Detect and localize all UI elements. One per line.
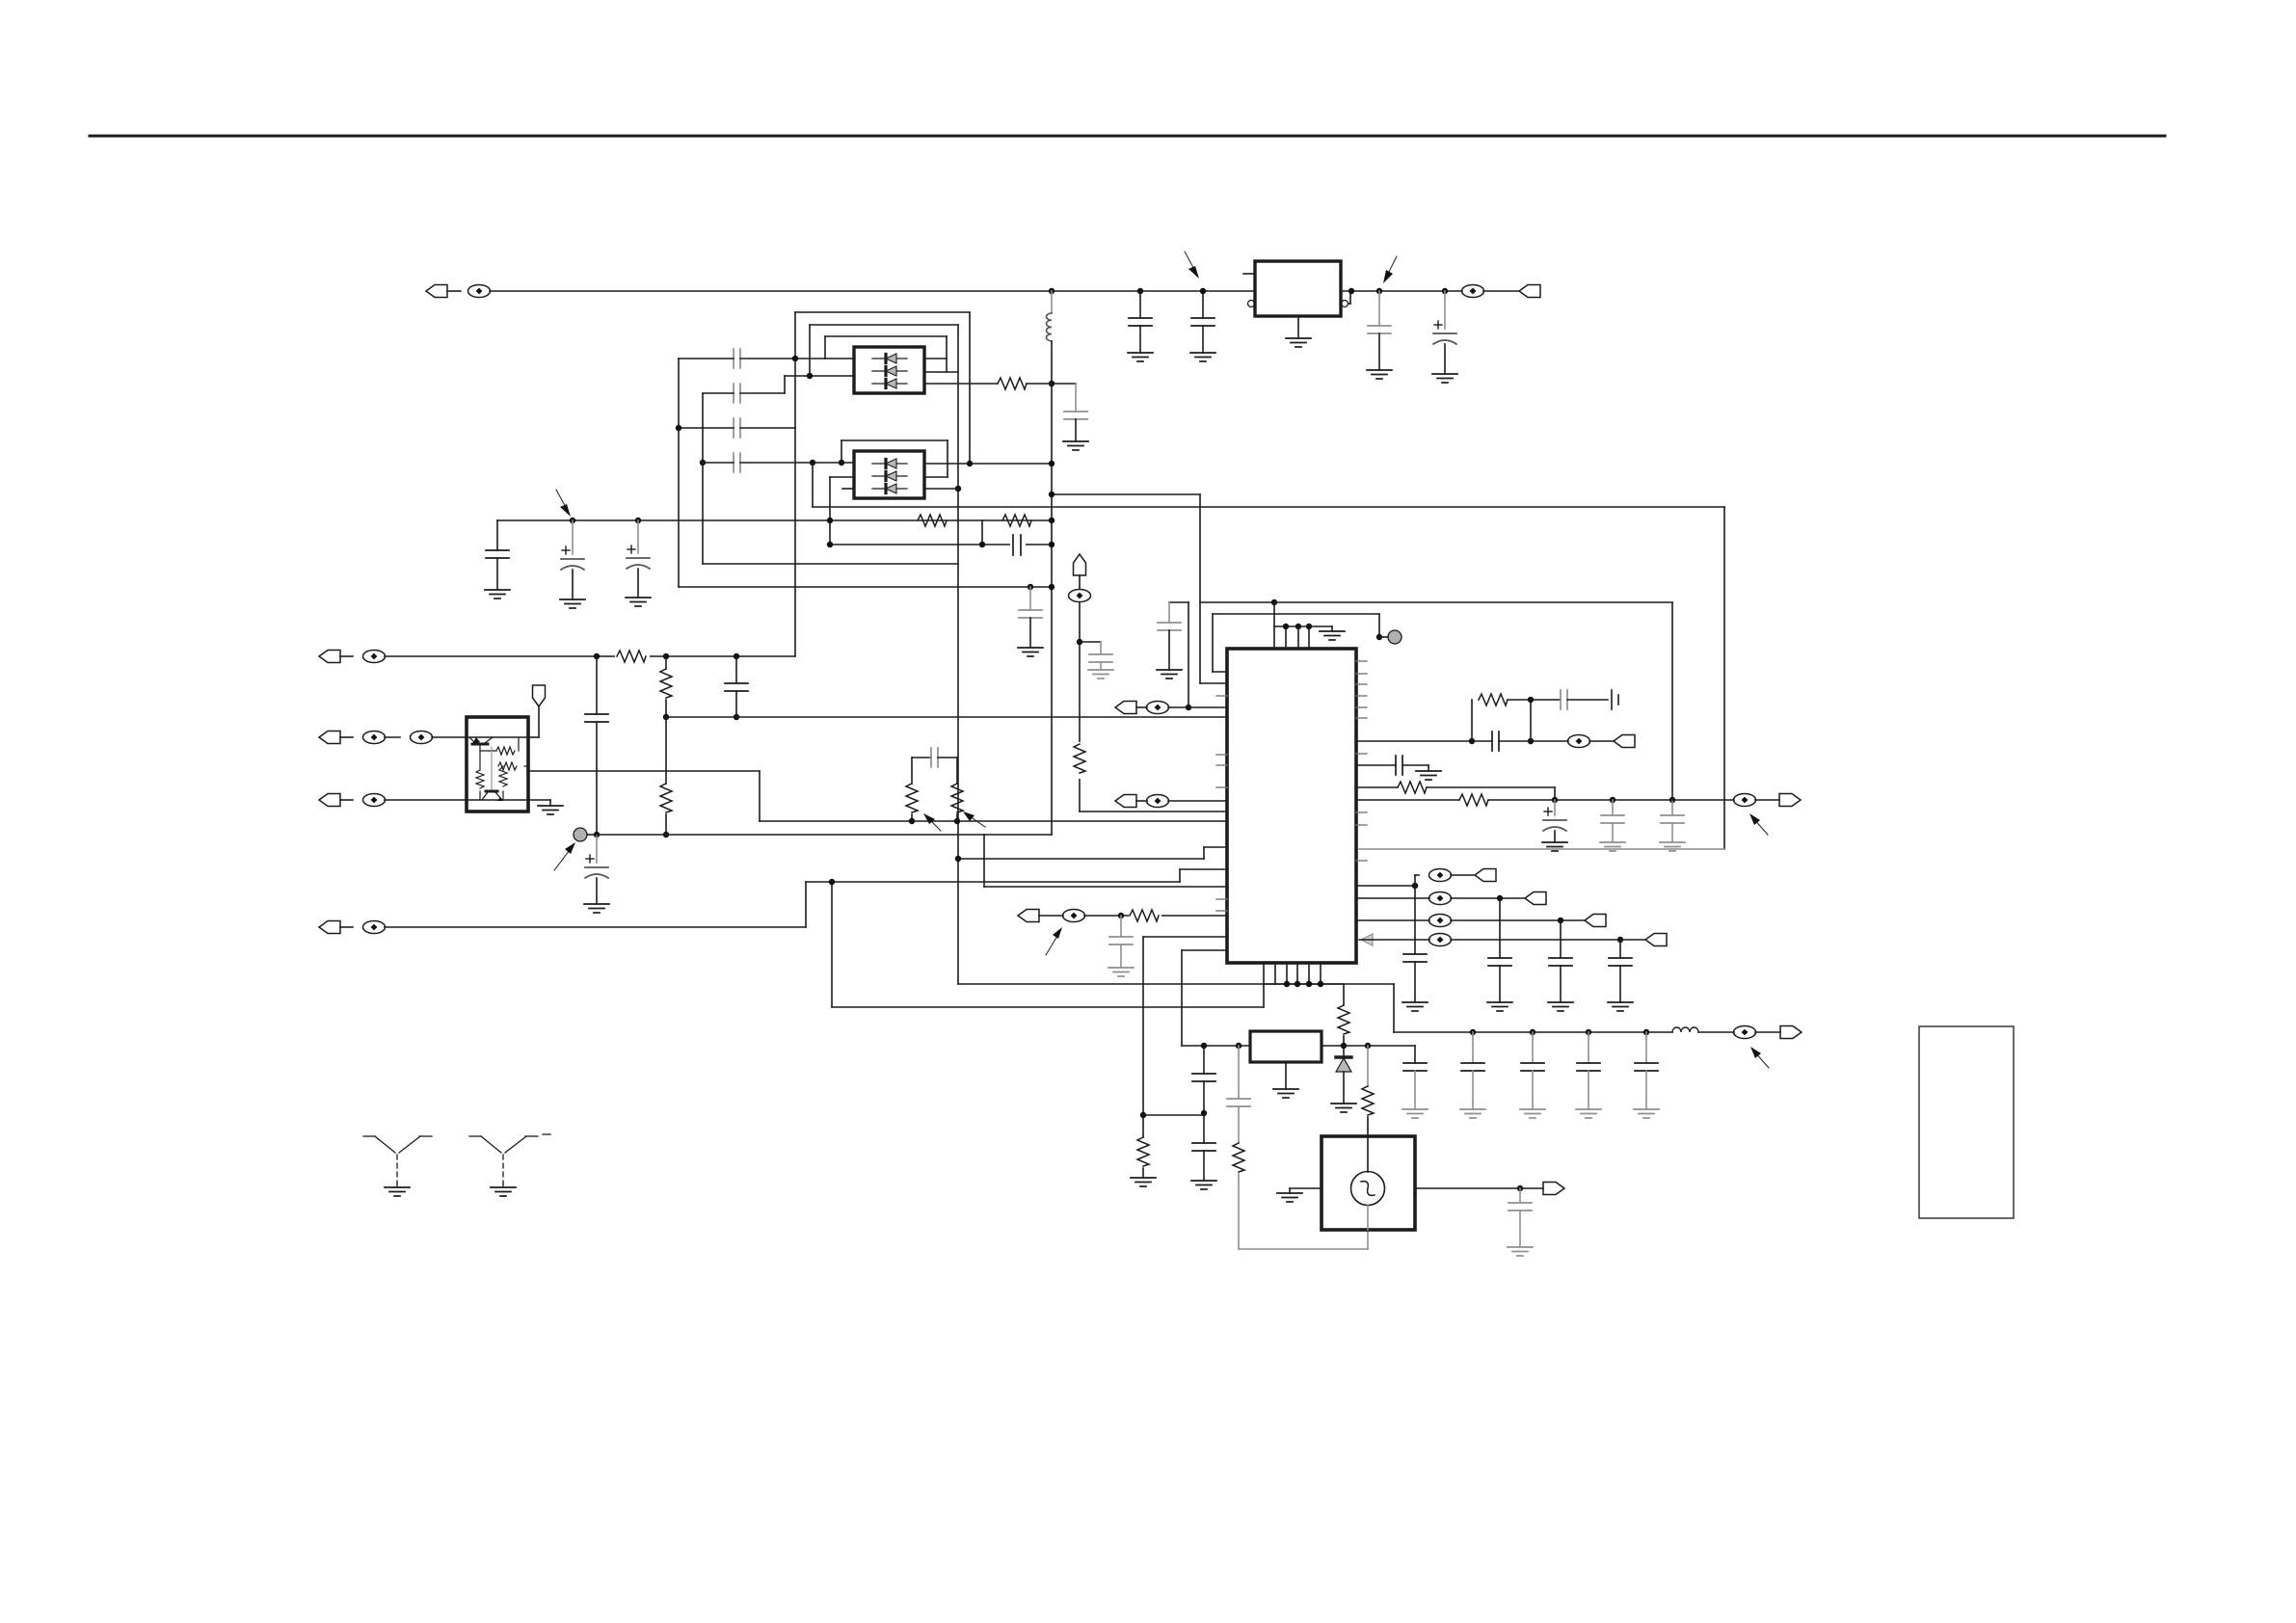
capacitor C26 xyxy=(1508,1188,1533,1256)
wire from Q1 row y793-852 xyxy=(527,771,1227,821)
ferrite bead FB1 xyxy=(468,285,491,298)
connector J9 row 831 xyxy=(1115,795,1227,808)
riser x825 to loop xyxy=(794,428,796,656)
resistor R8 xyxy=(951,758,963,824)
antenna symbol 2 xyxy=(469,1134,550,1196)
node R/L junction xyxy=(1049,381,1055,386)
coupling capacitor C3 xyxy=(676,418,795,438)
probe arrow to output bead xyxy=(1749,813,1768,835)
tap wire xyxy=(981,520,983,545)
right resistor R11 row 817 xyxy=(1356,782,1555,800)
capacitor C12 xyxy=(1367,291,1392,379)
long wire y1021 xyxy=(958,859,1394,984)
wire row 968 xyxy=(1143,937,1227,1115)
node at L1 top xyxy=(1049,288,1055,294)
connector J6 row D xyxy=(319,921,806,934)
cap+res chain x1285 xyxy=(1227,1046,1368,1249)
loop wire L2 of D1 xyxy=(807,325,958,379)
connector J10 row 950 xyxy=(1018,910,1227,922)
connector J2 (output) xyxy=(1519,285,1540,298)
capacitor C28 xyxy=(1520,1032,1545,1118)
capacitor C25 xyxy=(1402,1046,1428,1118)
resistor R10 xyxy=(1129,907,1161,924)
capacitor C29 xyxy=(1576,1032,1601,1118)
U1 right pin stubs xyxy=(1356,661,1367,861)
wire xyxy=(1483,290,1519,292)
resistor R4 xyxy=(615,648,650,665)
transistor block Q1 box xyxy=(467,717,528,811)
U1 bottom-left pin drop xyxy=(1182,950,1227,1046)
ground of IC2 xyxy=(1286,316,1311,347)
capacitor C11 xyxy=(1190,288,1215,361)
SEC2 xyxy=(319,428,1394,1196)
right net row 769 xyxy=(1356,690,1635,751)
capacitor C23 xyxy=(1660,800,1685,851)
regulator IC2 xyxy=(1243,261,1350,316)
IC U1 main box xyxy=(1227,649,1356,963)
capacitor C30 xyxy=(1634,1032,1659,1118)
loop drop x1735 xyxy=(1671,602,1673,800)
probe arrow to C11 xyxy=(1185,252,1199,279)
loop wire of D2 xyxy=(841,440,948,477)
electrolytic C17 xyxy=(584,835,609,913)
X1 left ground xyxy=(1277,1188,1322,1202)
U1 left pin stubs xyxy=(1216,696,1227,911)
capacitor C8 inline xyxy=(1010,535,1026,555)
connector J8 row 734 xyxy=(1115,702,1227,714)
right oval row 4 (y975) xyxy=(1359,934,1667,1012)
gray node with probe xyxy=(574,828,600,841)
inductor L2 xyxy=(1672,1027,1734,1032)
wire row y866-880 to IC xyxy=(597,835,1227,887)
supply top wire y625 xyxy=(1049,492,1672,683)
capacitor C10 xyxy=(1128,288,1153,361)
IC3 ground xyxy=(1273,1062,1298,1098)
long wire y1045 xyxy=(829,879,1264,1007)
resistor R3 xyxy=(1002,515,1031,526)
X1 output xyxy=(1415,1183,1564,1195)
wire +B main xyxy=(490,290,1255,292)
loop wire L1 of D1 xyxy=(792,312,973,466)
probe arrow to rail xyxy=(556,490,571,517)
right cap C20 row 794 xyxy=(1356,756,1441,780)
D2 left pin3 stub xyxy=(842,488,854,490)
wire row y744 to IC xyxy=(666,716,1227,718)
probe arrow xyxy=(1750,1047,1769,1068)
capacitor C5 xyxy=(485,520,510,599)
node with probe arrow xyxy=(1376,288,1382,294)
row D riser to IC xyxy=(806,869,1227,927)
U1 top pins xyxy=(1271,599,1332,649)
capacitor C9 xyxy=(1018,587,1043,656)
electrolytic C13 xyxy=(1432,288,1457,383)
rail wire y540 xyxy=(497,518,1055,523)
bead FB3 + connector xyxy=(1734,1026,1802,1039)
supply loop wire W xyxy=(813,464,1724,849)
probe arrow to J10 xyxy=(1046,927,1062,955)
capacitor C19 xyxy=(1108,916,1134,976)
wire reg output xyxy=(1341,290,1462,292)
crystal oscillator X1 xyxy=(1322,1136,1415,1230)
electrolytic C6 xyxy=(560,520,585,608)
connector J7 (down arrow above Q1) xyxy=(528,685,546,737)
ground of top pins xyxy=(1320,626,1345,640)
rail wire y565 xyxy=(827,542,1055,547)
resistor R6 (x691 lower) xyxy=(660,717,672,838)
SEC3 xyxy=(1018,492,1801,1115)
right oval row 2 (y932) xyxy=(1356,892,1546,1012)
cap C15 inline x619 xyxy=(585,656,608,835)
resistor R2 xyxy=(918,515,947,526)
inner loop wire y637 xyxy=(1213,614,1382,672)
resistor R15 xyxy=(1131,1115,1156,1186)
D2 left pin2 riser xyxy=(830,477,854,545)
capacitor C14 branch xyxy=(1052,384,1088,450)
resistor R14 xyxy=(1362,1046,1374,1136)
gray pad node xyxy=(1379,630,1402,644)
probe arrows to R7 R8 xyxy=(923,811,985,831)
title rule xyxy=(90,135,2165,138)
VCC up-arrow chain xyxy=(1069,554,1114,811)
resistor R9 in VCC chain xyxy=(1072,742,1087,779)
resistor R7 pair w/ cap xyxy=(906,748,957,824)
diode array D1 box xyxy=(854,347,924,393)
bus wire left column B xyxy=(702,393,704,564)
capacitor C22 xyxy=(1600,800,1625,851)
inductor L1 xyxy=(1047,291,1053,835)
electrolytic C21 xyxy=(1542,800,1567,851)
resistor R13 xyxy=(1338,984,1349,1046)
connector J1 (left arrow, +B line) xyxy=(426,285,447,298)
feed wire y585 xyxy=(703,325,961,859)
SEC4 xyxy=(1131,984,2014,1256)
connector J4 row B xyxy=(319,732,528,744)
coupling capacitor C2 xyxy=(703,376,854,403)
right resistor R12 row 830 xyxy=(1356,794,1801,807)
D2 right pin1 wire xyxy=(924,461,1055,466)
diode array D2 box xyxy=(854,451,924,498)
cap chain x1249 xyxy=(1191,1046,1216,1189)
link wire y1155 xyxy=(1140,1112,1204,1118)
electrolytic C7 xyxy=(626,520,651,606)
note box xyxy=(1919,1026,2014,1218)
zener diode D3 xyxy=(1331,1046,1356,1112)
connector J5 row C xyxy=(319,794,528,807)
Q1 ground xyxy=(528,800,563,814)
U1 bottom pins xyxy=(1264,963,1344,1007)
SEC1 xyxy=(485,312,1724,862)
antenna symbol 1 xyxy=(363,1136,432,1196)
right oval row 1 (y908/919) xyxy=(1356,869,1496,967)
cap C24 w gnd xyxy=(1402,954,1428,1011)
coupling capacitor C1 xyxy=(679,349,854,368)
capacitor C18 xyxy=(1157,602,1191,710)
connector J3 row A xyxy=(319,651,795,663)
wire xyxy=(447,290,461,292)
Q1 internals xyxy=(469,737,528,801)
D1 right pin wires xyxy=(924,359,998,384)
right oval row 3 (y955) xyxy=(1356,915,1606,1012)
bus wire left column A xyxy=(678,359,680,587)
IC3 output rail xyxy=(1322,1043,1415,1049)
coupling capacitor C4 xyxy=(700,453,854,472)
capacitor C27 xyxy=(1460,1032,1485,1118)
loop wire L3 of D1 xyxy=(825,336,947,372)
resistor R1 xyxy=(998,378,1052,389)
supply rail y1071 xyxy=(1394,984,1672,1035)
wire row y891 to IC xyxy=(955,847,1227,862)
capacitor C16 (x764) xyxy=(725,656,748,720)
resistor R5 (x691 upper) xyxy=(660,656,672,720)
regulator IC3 input rail y1085 xyxy=(1182,1043,1250,1049)
wire into IC pin 842 xyxy=(1080,811,1227,812)
ferrite bead FB2 xyxy=(1462,285,1484,298)
feed wire y609 xyxy=(679,584,1055,590)
regulator IC3 xyxy=(1250,1031,1322,1062)
